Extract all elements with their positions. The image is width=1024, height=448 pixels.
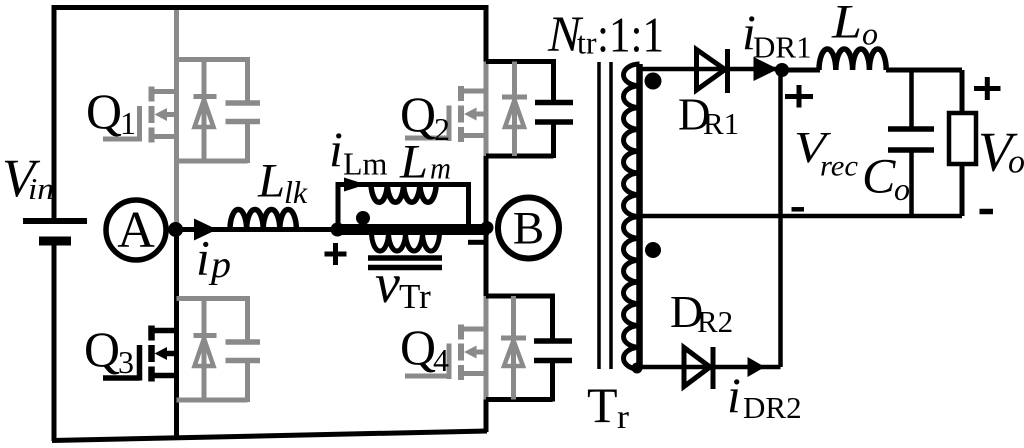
inductor Lm coil <box>371 185 436 203</box>
wire left bridge leg black lower (Q3) <box>174 230 179 439</box>
transformer primary core lines <box>368 258 442 268</box>
inductor Llk <box>230 209 296 229</box>
svg-text:Q: Q <box>84 321 120 377</box>
svg-text:3: 3 <box>118 344 134 380</box>
transistor Q2 branch wires <box>486 59 554 158</box>
wire output right branch lower <box>960 164 965 216</box>
svg-text:C: C <box>862 148 896 204</box>
plus sign Vrec <box>785 85 813 108</box>
transistor Q4 MOSFET symbol <box>405 325 486 381</box>
svg-text:i: i <box>329 121 343 177</box>
wire Lo to output <box>886 68 962 73</box>
wire output right branch upper <box>960 70 965 113</box>
svg-text:Q: Q <box>400 86 436 142</box>
svg-text:m: m <box>430 151 451 186</box>
capacitor Co lead lower <box>909 152 914 216</box>
capacitor Q4 snubber <box>534 341 572 361</box>
node Lm branch left junction dot <box>331 223 345 237</box>
svg-text:R2: R2 <box>697 304 733 339</box>
wire secondary center tap <box>640 214 963 219</box>
node A junction dot <box>168 222 183 237</box>
arrow ip current <box>194 219 217 241</box>
wire primary thick bar <box>334 224 489 235</box>
wire bottom rail <box>52 431 487 441</box>
diode Q4 body <box>501 296 526 400</box>
node DR1 junction dot <box>775 63 789 77</box>
node Lm polarity dot <box>356 211 370 225</box>
transistor Q3 branch wires <box>177 296 248 402</box>
svg-text:Q: Q <box>400 319 436 375</box>
wire primary line <box>177 227 337 232</box>
svg-text:o: o <box>862 16 878 52</box>
capacitor Q2 snubber <box>535 103 573 123</box>
diode Q1 body <box>194 60 217 162</box>
svg-text:L: L <box>831 0 862 49</box>
transformer core lines <box>599 62 611 369</box>
transistor Q4 branch wires <box>486 294 553 402</box>
svg-text:lk: lk <box>284 174 308 210</box>
node secondary bottom polarity dot <box>645 242 661 258</box>
transistor Q2 MOSFET symbol <box>405 86 486 142</box>
svg-text:o: o <box>1008 144 1024 181</box>
wire left rail lower <box>52 245 57 441</box>
inductor Lo <box>819 49 886 70</box>
svg-text::1:1: :1:1 <box>597 7 664 63</box>
diode DR1 <box>697 49 728 93</box>
transistor Q1 MOSFET symbol <box>103 87 177 143</box>
transistor Q1 branch wires <box>177 57 248 163</box>
diode DR2 <box>684 347 713 389</box>
capacitor Co plates <box>888 129 934 150</box>
wire secondary bottom line <box>640 365 781 370</box>
svg-text:o: o <box>894 171 910 207</box>
minus sign vTr <box>468 240 484 245</box>
svg-text:i: i <box>727 367 741 423</box>
svg-text:2: 2 <box>434 111 450 147</box>
svg-text:DR1: DR1 <box>753 30 812 65</box>
plus sign Vo <box>974 77 1001 100</box>
diode Q3 body <box>194 299 217 401</box>
plus sign vTr <box>325 243 347 265</box>
wire secondary top line <box>640 67 783 72</box>
capacitor Q3 snubber <box>226 342 261 361</box>
arrow iDR1 current <box>754 57 779 81</box>
svg-text:in: in <box>28 171 54 206</box>
svg-text:tr: tr <box>577 25 597 61</box>
resistor Vo load <box>949 113 976 164</box>
svg-text:v: v <box>375 253 400 315</box>
transformer secondary winding bumps <box>624 64 640 369</box>
svg-text:B: B <box>513 203 544 255</box>
svg-text:r: r <box>617 399 630 436</box>
svg-text:4: 4 <box>433 342 449 378</box>
wire rectified junction vertical <box>778 69 783 367</box>
wire right bridge leg gray (Q2) <box>484 62 489 157</box>
svg-text:A: A <box>117 202 155 259</box>
arrow iLm current <box>344 178 366 192</box>
svg-text:Tr: Tr <box>399 277 431 316</box>
svg-text:Lm: Lm <box>343 146 388 182</box>
wire right bridge leg gray (Q4) <box>484 296 489 400</box>
svg-text:DR2: DR2 <box>743 390 802 425</box>
capacitor Q1 snubber <box>226 103 261 122</box>
wire right bridge leg black bottom <box>484 400 489 433</box>
node B junction dot <box>481 221 494 234</box>
transformer primary winding <box>372 232 440 251</box>
wire top rail and left rail upper and right leg top <box>54 8 486 220</box>
capacitor Co lead upper <box>909 70 914 127</box>
arrow iDR2 current <box>748 357 766 377</box>
battery Vin long plate <box>23 218 87 224</box>
wire to Lo <box>782 68 820 73</box>
svg-text:L: L <box>257 155 285 208</box>
transistor Q3 MOSFET symbol (black) <box>103 326 177 382</box>
svg-text:L: L <box>399 136 428 189</box>
battery Vin short plate <box>39 237 71 246</box>
node B circle <box>498 198 559 259</box>
minus sign Vo <box>980 209 994 215</box>
svg-text:Q: Q <box>86 83 122 139</box>
svg-text:p: p <box>208 244 231 286</box>
svg-text:rec: rec <box>820 150 858 183</box>
transformer secondary winding spine <box>636 64 643 369</box>
wire left bridge leg gray upper (Q1) <box>174 10 179 230</box>
svg-text:i: i <box>196 230 210 286</box>
node winding bottom dot <box>632 363 643 374</box>
node A circle <box>106 200 166 260</box>
svg-text:T: T <box>587 377 618 433</box>
wire Lm branch rectangle <box>338 185 469 230</box>
diode Q2 body <box>502 62 527 157</box>
svg-text:R1: R1 <box>703 106 739 141</box>
svg-text:1: 1 <box>120 105 136 141</box>
node secondary top polarity dot <box>645 73 662 90</box>
minus sign Vrec <box>792 207 805 212</box>
wire right bridge leg black mid <box>484 156 489 296</box>
